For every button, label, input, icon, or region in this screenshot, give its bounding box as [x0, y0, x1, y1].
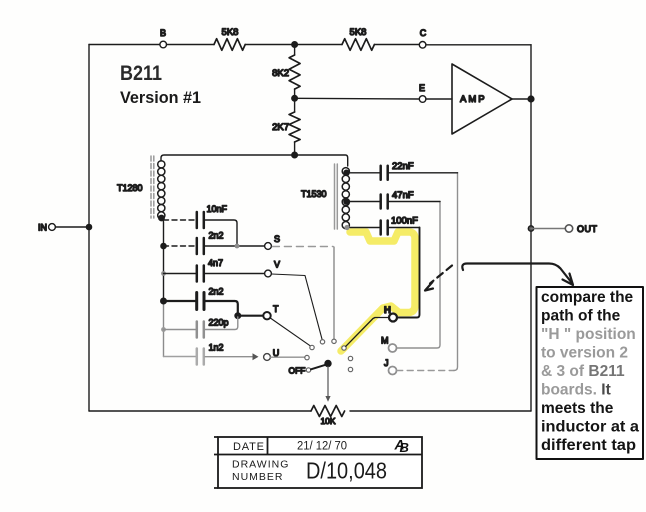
wire 220p to T junction [205, 317, 238, 330]
contact V [320, 340, 324, 344]
svg-text:2n2: 2n2 [209, 231, 224, 241]
svg-text:IN: IN [38, 223, 47, 233]
node E junction [292, 96, 298, 102]
contact J [348, 367, 352, 371]
title block [214, 437, 422, 488]
capacitor 2n2 (upper) [161, 243, 166, 248]
capacitor 10nF [164, 219, 196, 221]
node U [264, 354, 271, 361]
wire node to second 5K8 [295, 44, 342, 46]
wire 47nF right [389, 201, 440, 203]
svg-text:S: S [274, 234, 280, 244]
wire bottom edge right of 10K [350, 410, 531, 412]
T1530 core [335, 164, 338, 229]
node J [389, 367, 397, 375]
wire 100nF right [389, 227, 420, 229]
capacitor 1n2 [164, 356, 196, 358]
junction AMP output [528, 96, 534, 102]
capacitor 220p [161, 327, 166, 332]
wire left edge [88, 45, 90, 412]
svg-text:path of the: path of the [541, 308, 621, 325]
wire tap column [162, 218, 164, 301]
junction T/220p [235, 313, 241, 319]
wire junction to E [295, 97, 420, 100]
svg-text:B211: B211 [120, 62, 162, 85]
wire J dashed to 22nF vertical [397, 370, 454, 372]
resistor 8K2 [294, 45, 296, 56]
svg-text:DATE: DATE [233, 441, 265, 453]
wire H to 100nF vertical [397, 228, 419, 318]
svg-text:22nF: 22nF [392, 161, 414, 172]
svg-text:T1530: T1530 [301, 189, 327, 199]
wire S vertical to contact [333, 247, 335, 339]
node M [389, 344, 397, 352]
svg-text:H: H [384, 305, 391, 316]
wire T to switch contact [270, 318, 310, 346]
svg-text:boards. It: boards. It [541, 382, 611, 399]
capacitor 2n2 (lower) [161, 298, 167, 304]
contact OFF [306, 368, 310, 372]
wire 22nF right [389, 172, 458, 174]
wire IN to left edge [55, 226, 89, 228]
svg-text:inductor at a: inductor at a [541, 419, 639, 436]
capacitor 22nF [349, 172, 379, 174]
svg-text:different tap: different tap [541, 437, 636, 454]
wire bottom edge left of 10K [89, 410, 311, 412]
op-amp U1 AMP [452, 64, 512, 134]
junction below 2K7 [292, 152, 298, 158]
node S [265, 243, 272, 250]
capacitor 100nF [350, 227, 379, 229]
wire right edge [530, 45, 532, 411]
T1530 winding [342, 168, 349, 229]
wire 2n2 to S [205, 245, 265, 247]
svg-text:NUMBER: NUMBER [232, 471, 284, 483]
node C [419, 42, 426, 49]
svg-text:"H " position: "H " position [541, 326, 636, 343]
T1280 winding [158, 161, 165, 219]
contact T [310, 345, 314, 349]
svg-text:5K8: 5K8 [350, 27, 367, 38]
arrow dashed annotation [430, 266, 452, 284]
contact S [332, 339, 336, 343]
svg-text:C: C [420, 28, 427, 38]
svg-text:D/10,048: D/10,048 [306, 458, 387, 484]
node B [160, 41, 167, 48]
yellow highlight path H position [341, 232, 415, 351]
svg-text:47nF: 47nF [392, 190, 414, 201]
wire U to contact [270, 356, 304, 358]
wire 5K8 to C [374, 44, 419, 46]
node V [265, 270, 272, 277]
svg-text:Version #1: Version #1 [120, 89, 201, 107]
resistor 5K8 (right) [342, 39, 374, 51]
wire to OUT [531, 228, 565, 230]
svg-text:8K2: 8K2 [272, 68, 289, 79]
svg-text:M: M [381, 336, 389, 346]
T1280 bottom tap [159, 215, 164, 220]
node T [263, 312, 270, 319]
svg-text:B: B [160, 28, 166, 38]
wire 10nF to S line [205, 220, 237, 246]
resistor 2K7 [294, 98, 296, 112]
svg-text:4n7: 4n7 [208, 258, 223, 268]
switch pole [325, 361, 331, 367]
wire 2n2 to T [206, 301, 263, 316]
svg-text:2n2: 2n2 [209, 287, 224, 297]
svg-text:2K7: 2K7 [272, 122, 289, 133]
wire M to 47nF vertical [397, 202, 440, 349]
wire mid horizontal (2K7 tap to transformers) [295, 155, 348, 166]
svg-text:OUT: OUT [577, 224, 598, 234]
junction IN on left edge [86, 224, 91, 229]
T1530 tap 2 [344, 199, 349, 204]
T1530 tap 1 [344, 170, 349, 175]
wire 4n7 to V [205, 273, 265, 275]
arrowhead wiper [325, 396, 330, 402]
rotary switch contacts [305, 339, 353, 372]
svg-text:to version 2: to version 2 [541, 345, 628, 362]
svg-text:1n2: 1n2 [209, 343, 224, 353]
contact M [348, 356, 352, 360]
T1280 core [151, 156, 154, 218]
resistor 5K8 (left) [214, 39, 245, 51]
svg-text:T1280: T1280 [117, 183, 143, 193]
wire 5K8 to node [245, 44, 294, 46]
capacitor 47nF [349, 201, 379, 203]
svg-text:& 3 of B211: & 3 of B211 [541, 363, 625, 380]
svg-text:100nF: 100nF [391, 216, 418, 227]
svg-text:OFF: OFF [289, 366, 306, 376]
svg-text:21/ 12/ 70: 21/ 12/ 70 [297, 441, 347, 453]
contact H [342, 346, 346, 350]
svg-text:5K8: 5K8 [222, 27, 239, 38]
wire AMP output [512, 98, 531, 100]
T1530 bottom tap [344, 225, 349, 230]
svg-text:meets the: meets the [541, 400, 614, 417]
wire E to AMP [426, 98, 452, 100]
svg-text:compare the: compare the [541, 289, 634, 306]
junction 10nF/2n2 [235, 244, 240, 249]
svg-text:DRAWING: DRAWING [232, 459, 289, 471]
node H [389, 314, 397, 322]
junction top of 8K2 [292, 42, 298, 48]
wire pole to 10K wiper [327, 367, 329, 398]
wire V to switch contact [271, 274, 322, 340]
wire B to R 5K8 [167, 44, 215, 46]
svg-text:J: J [384, 358, 389, 368]
svg-text:B: B [400, 440, 409, 455]
switch wiper arm to OFF [311, 365, 326, 370]
arrow solid annotation [462, 264, 571, 283]
annotation text [541, 289, 639, 454]
wire top edge left segment [89, 44, 160, 46]
node OUT [565, 225, 572, 232]
junction OUT [528, 226, 533, 231]
svg-text:E: E [419, 83, 425, 93]
svg-text:T: T [273, 304, 279, 314]
capacitor 4n7 [161, 271, 166, 276]
resistor 10K [311, 406, 345, 417]
contact U [305, 355, 309, 359]
svg-text:V: V [274, 260, 280, 270]
svg-text:220p: 220p [209, 318, 229, 328]
annotation box [537, 287, 644, 459]
svg-text:AMP: AMP [460, 94, 487, 105]
wire 1n2 to U with arrow [205, 356, 252, 358]
wire H diagonal from contact [346, 318, 389, 347]
svg-text:10nF: 10nF [207, 204, 228, 214]
svg-text:10K: 10K [320, 416, 335, 426]
wire C to top right corner [426, 44, 531, 46]
wire S dashed to switch [272, 246, 333, 248]
node E [419, 96, 426, 103]
